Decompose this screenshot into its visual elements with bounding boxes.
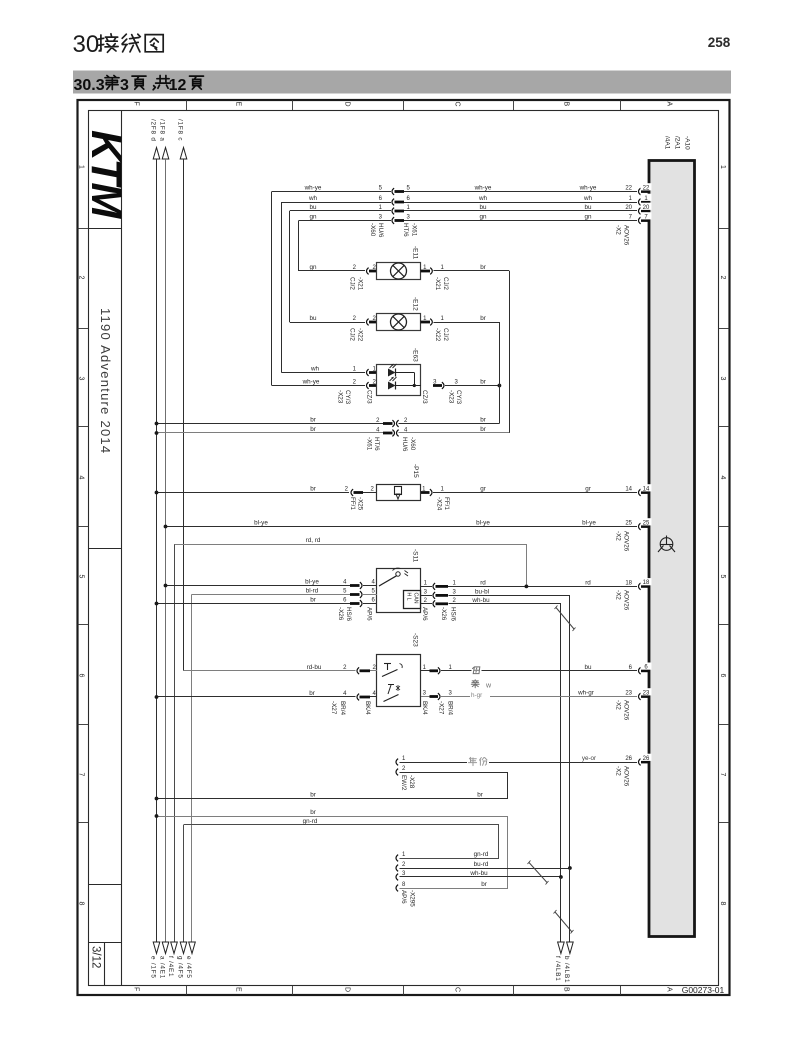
svg-text:-X61: -X61 bbox=[411, 223, 418, 237]
switch S23 box bbox=[377, 655, 421, 707]
svg-text:HU/6: HU/6 bbox=[377, 223, 384, 238]
svg-text:gn: gn bbox=[479, 214, 487, 221]
svg-text:23: 23 bbox=[643, 690, 650, 696]
wire br to S11 pin 6 bbox=[157, 603, 351, 605]
svg-text:-X26: -X26 bbox=[337, 607, 344, 621]
svg-text:-X2: -X2 bbox=[615, 700, 622, 710]
block pin 7 bbox=[639, 217, 641, 224]
lamp E12 bbox=[290, 322, 365, 324]
svg-text:-X2: -X2 bbox=[615, 225, 622, 235]
wire bu to block pin 20 bbox=[290, 210, 391, 212]
svg-text:wh-ye: wh-ye bbox=[302, 379, 320, 386]
wire rd from S11 pin 1 to block pin 18 bbox=[421, 586, 432, 588]
svg-text:-X22: -X22 bbox=[357, 328, 364, 342]
svg-text:br: br bbox=[480, 426, 486, 433]
wire bus bl-ye (left 2) bbox=[165, 159, 167, 942]
block pin 22 bbox=[639, 188, 641, 195]
svg-text:22: 22 bbox=[643, 185, 650, 191]
S11 CAN box bbox=[404, 591, 421, 609]
svg-text:20: 20 bbox=[643, 205, 650, 211]
title block column bbox=[121, 110, 123, 986]
outer drawing frame bbox=[78, 100, 730, 995]
wire br to S23 pin 4 bbox=[157, 696, 356, 698]
svg-text:25: 25 bbox=[625, 521, 632, 527]
svg-text:wh-ye: wh-ye bbox=[474, 185, 492, 192]
svg-text:rd: rd bbox=[585, 580, 591, 587]
svg-text:14: 14 bbox=[643, 486, 650, 492]
svg-text:C: C bbox=[454, 987, 461, 992]
connector -X28 EW/2 bbox=[396, 759, 398, 766]
svg-text:H L: H L bbox=[406, 593, 412, 601]
LED symbols inside E63 bbox=[388, 369, 396, 377]
svg-text:CZ/3: CZ/3 bbox=[421, 390, 428, 404]
svg-text:gr: gr bbox=[480, 486, 486, 493]
svg-text:gn: gn bbox=[584, 214, 592, 221]
off-page arrow f /4LB1 bbox=[558, 942, 565, 954]
svg-text:-X2: -X2 bbox=[615, 766, 622, 776]
wire bracket wh-ye bbox=[271, 192, 273, 386]
label qin w (Chinese) bbox=[471, 680, 479, 688]
svg-text:B: B bbox=[563, 987, 570, 992]
svg-text:BK/4: BK/4 bbox=[421, 701, 428, 715]
svg-text:/1F8 a: /1F8 a bbox=[159, 119, 166, 142]
svg-text:br: br bbox=[480, 264, 486, 271]
svg-text:25: 25 bbox=[643, 520, 650, 526]
svg-text:-X295: -X295 bbox=[409, 890, 416, 907]
svg-text:a /4E1: a /4E1 bbox=[159, 956, 166, 979]
svg-text:br: br bbox=[310, 426, 316, 433]
wire bl-ye to S11 pin 4 bbox=[166, 585, 351, 587]
svg-text:3/12: 3/12 bbox=[90, 946, 102, 968]
svg-text:bu-rd: bu-rd bbox=[474, 861, 489, 868]
svg-text:bu: bu bbox=[584, 664, 592, 671]
svg-text:bu-bl: bu-bl bbox=[475, 589, 489, 596]
wire bus rd (left 3) bbox=[174, 544, 176, 942]
svg-text:wh: wh bbox=[310, 366, 320, 373]
svg-text:bu: bu bbox=[309, 204, 317, 211]
svg-text:-E11: -E11 bbox=[412, 246, 419, 260]
svg-text:rd, rd: rd, rd bbox=[306, 537, 321, 544]
sensor P15 bbox=[157, 492, 350, 494]
svg-text:bl-ye: bl-ye bbox=[305, 579, 319, 586]
wire bu-rd X295 pin 2 bbox=[400, 868, 570, 870]
svg-text:AOV26: AOV26 bbox=[623, 700, 630, 721]
svg-text:BK/4: BK/4 bbox=[364, 701, 371, 715]
block pin 6 bbox=[639, 667, 641, 674]
svg-text:AOV26: AOV26 bbox=[623, 531, 630, 552]
svg-text:FF/1: FF/1 bbox=[349, 497, 356, 510]
wire wh-bu from S11 pin 2 bbox=[421, 603, 432, 605]
svg-text:F: F bbox=[133, 102, 140, 106]
svg-text:22: 22 bbox=[625, 186, 632, 192]
wire bracket wh bbox=[281, 202, 283, 373]
label nianfen (Chinese year) bbox=[468, 757, 476, 765]
svg-text:-X61: -X61 bbox=[366, 437, 373, 451]
svg-text:HS/6: HS/6 bbox=[345, 607, 352, 621]
svg-text:rd-bu: rd-bu bbox=[307, 664, 322, 671]
control unit -A10 /2A1 /4A1 block bbox=[649, 161, 695, 937]
svg-text:bl-ye: bl-ye bbox=[254, 520, 268, 527]
svg-text:CJ/2: CJ/2 bbox=[442, 328, 449, 341]
svg-text:G00273-01: G00273-01 bbox=[682, 985, 725, 995]
svg-text:br: br bbox=[310, 597, 316, 604]
wire br vertical from E11 bbox=[509, 271, 511, 433]
svg-text:wh-ye: wh-ye bbox=[579, 185, 597, 192]
svg-text:wh-gr: wh-gr bbox=[577, 690, 594, 697]
wire gn to block pin 7 bbox=[299, 220, 391, 222]
off-page arrow e /4F5 bottom bbox=[189, 942, 196, 954]
svg-text:5: 5 bbox=[78, 575, 85, 579]
svg-text:EW/2: EW/2 bbox=[400, 775, 407, 791]
svg-text:FF/1: FF/1 bbox=[443, 497, 450, 510]
svg-text:CZ/3: CZ/3 bbox=[366, 390, 373, 404]
wire bu from S23 pin 1 to block pin 6 bbox=[421, 670, 430, 672]
svg-text:14: 14 bbox=[625, 487, 632, 493]
svg-text:30: 30 bbox=[73, 31, 100, 58]
twisted pair marker upper bbox=[556, 608, 574, 630]
svg-text:4: 4 bbox=[719, 476, 726, 480]
svg-text:23: 23 bbox=[625, 691, 632, 697]
svg-text:rd: rd bbox=[480, 580, 486, 587]
svg-text:HS/6: HS/6 bbox=[450, 607, 457, 621]
svg-text:26: 26 bbox=[625, 756, 632, 762]
svg-text:-X23: -X23 bbox=[448, 390, 455, 404]
svg-text:-X27: -X27 bbox=[438, 701, 445, 715]
svg-text:gr: gr bbox=[585, 486, 591, 493]
svg-text:1190 Adventure 2014: 1190 Adventure 2014 bbox=[98, 308, 113, 454]
svg-text:br: br bbox=[477, 792, 483, 799]
junction rd bbox=[525, 585, 529, 589]
svg-text:-S23: -S23 bbox=[412, 633, 419, 647]
wire br from X28 pin 2 bbox=[157, 773, 508, 799]
wire bl-ye to block pin 25 bbox=[166, 526, 638, 528]
svg-text:ye-or: ye-or bbox=[582, 755, 596, 762]
svg-text:HT/6: HT/6 bbox=[402, 223, 409, 237]
svg-text:/1F8 c: /1F8 c bbox=[177, 119, 184, 141]
svg-text:C: C bbox=[454, 102, 461, 107]
svg-text:258: 258 bbox=[708, 35, 731, 50]
junction br at E63 bbox=[498, 384, 502, 388]
svg-text:-A10: -A10 bbox=[684, 136, 691, 150]
wire br row A to connector -X61/-X60 bbox=[157, 423, 384, 425]
svg-text:A: A bbox=[666, 987, 673, 992]
svg-text:2: 2 bbox=[719, 276, 726, 280]
svg-text:b /4LB1: b /4LB1 bbox=[563, 956, 570, 983]
svg-text:-X27: -X27 bbox=[330, 701, 337, 715]
svg-text:bl-ye: bl-ye bbox=[476, 520, 490, 527]
P15 internal symbol bbox=[395, 487, 402, 495]
wire rd,rd jumper bbox=[175, 545, 527, 587]
svg-text:8: 8 bbox=[78, 902, 85, 906]
svg-text:br: br bbox=[310, 792, 316, 799]
svg-text:D: D bbox=[344, 987, 351, 992]
svg-text:7: 7 bbox=[719, 773, 726, 777]
wire wh to block pin 1 bbox=[281, 202, 391, 204]
svg-text:bl-ye: bl-ye bbox=[582, 520, 596, 527]
svg-text:wh: wh bbox=[583, 195, 593, 202]
wire bracket bu bbox=[289, 211, 291, 322]
svg-text:-X25: -X25 bbox=[357, 497, 364, 511]
svg-text:3: 3 bbox=[719, 377, 726, 381]
svg-text:-X24: -X24 bbox=[436, 497, 443, 511]
wire br from E12 bbox=[434, 322, 500, 324]
svg-text:B: B bbox=[563, 102, 570, 107]
off-page arrow a /4E1 bottom bbox=[162, 942, 169, 954]
svg-text:gn: gn bbox=[309, 264, 317, 271]
off-page arrow e /1F5 bottom bbox=[153, 942, 160, 954]
svg-text:6: 6 bbox=[78, 674, 85, 678]
svg-text:AOV26: AOV26 bbox=[623, 590, 630, 611]
svg-text:-X60: -X60 bbox=[409, 437, 416, 451]
svg-text:br: br bbox=[310, 417, 316, 424]
gray section band bbox=[73, 71, 731, 94]
svg-text:h-gr: h-gr bbox=[471, 692, 482, 699]
wire br from E63 pin3 bbox=[433, 384, 442, 387]
wire br to X295 pin 8 bbox=[157, 817, 508, 889]
svg-text:8: 8 bbox=[719, 902, 726, 906]
svg-text:-X21: -X21 bbox=[434, 277, 441, 291]
wire bus br (left 1) bbox=[156, 159, 158, 942]
wire gn-rd to X295 pin 1 bbox=[184, 825, 499, 859]
svg-text:-P15: -P15 bbox=[412, 464, 419, 478]
block pin 25 bbox=[639, 523, 641, 530]
svg-text:e /4F5: e /4F5 bbox=[185, 956, 192, 979]
svg-text:wh: wh bbox=[478, 195, 488, 202]
svg-text:KTM: KTM bbox=[82, 130, 130, 219]
svg-text:-E63: -E63 bbox=[412, 348, 419, 362]
svg-text:AP/6: AP/6 bbox=[366, 607, 373, 621]
svg-text:3: 3 bbox=[120, 77, 129, 94]
svg-text:E: E bbox=[235, 987, 242, 992]
wire wh-gr from S23 pin 3 to block pin 23 bbox=[421, 696, 430, 698]
block pin 20 bbox=[639, 208, 641, 215]
wire bracket gn bbox=[298, 221, 300, 272]
LED unit E63 bbox=[281, 372, 365, 374]
svg-text:-X2: -X2 bbox=[615, 531, 622, 541]
S23 internal switch symbols bbox=[384, 663, 391, 665]
svg-text:12: 12 bbox=[169, 77, 187, 94]
svg-text:2: 2 bbox=[78, 276, 85, 280]
top letter strip ticks bbox=[186, 100, 188, 110]
wire br from E11 bbox=[434, 270, 510, 272]
svg-text:br: br bbox=[480, 417, 486, 424]
label mu (Chinese) bbox=[472, 666, 482, 676]
svg-text:bu: bu bbox=[584, 204, 592, 211]
block pin 14 bbox=[639, 489, 641, 496]
svg-text:-X60: -X60 bbox=[369, 223, 376, 237]
switch S11 box bbox=[377, 569, 421, 613]
svg-text:-X21: -X21 bbox=[357, 277, 364, 291]
svg-text:br: br bbox=[481, 881, 487, 888]
svg-text:wh-bu: wh-bu bbox=[471, 597, 490, 604]
off-page arrow f /4E1 bottom bbox=[171, 942, 178, 954]
svg-text:1: 1 bbox=[719, 165, 726, 169]
wire gr to block pin 14 bbox=[433, 492, 637, 494]
svg-text:E: E bbox=[235, 102, 242, 107]
svg-text:AOV26: AOV26 bbox=[623, 766, 630, 787]
svg-text:bu: bu bbox=[309, 315, 317, 322]
svg-text:CAN: CAN bbox=[413, 593, 419, 604]
wire br vertical right of lamps bbox=[499, 322, 501, 424]
block pin 18 bbox=[639, 583, 641, 590]
svg-text:CY/3: CY/3 bbox=[344, 390, 351, 404]
svg-text:D: D bbox=[344, 102, 351, 107]
S11 internal switch symbol bbox=[396, 572, 400, 576]
svg-text:CY/3: CY/3 bbox=[455, 390, 462, 404]
block pin 1 bbox=[639, 199, 641, 206]
svg-text:AOV26: AOV26 bbox=[623, 225, 630, 246]
connector -X295 AP/6 bbox=[396, 855, 398, 862]
svg-text:-X2: -X2 bbox=[615, 590, 622, 600]
svg-text:wh-ye: wh-ye bbox=[304, 185, 322, 192]
lamp E11 bbox=[299, 270, 365, 272]
svg-text:3: 3 bbox=[78, 377, 85, 381]
svg-text:/2A1: /2A1 bbox=[674, 136, 681, 150]
left number strip ticks bbox=[78, 228, 89, 230]
svg-text:CJ/2: CJ/2 bbox=[349, 277, 356, 290]
svg-text:e /1F5: e /1F5 bbox=[150, 956, 157, 979]
svg-text:wh: wh bbox=[308, 195, 318, 202]
svg-text:br: br bbox=[480, 379, 486, 386]
svg-text:AP/6: AP/6 bbox=[421, 607, 428, 621]
svg-text:6: 6 bbox=[719, 674, 726, 678]
inner drawing frame bbox=[89, 111, 719, 986]
svg-text:30.3: 30.3 bbox=[74, 77, 105, 94]
svg-text:g /4F5: g /4F5 bbox=[177, 956, 184, 979]
svg-text:-X22: -X22 bbox=[434, 328, 441, 342]
svg-text:A: A bbox=[666, 102, 673, 107]
svg-text:br: br bbox=[310, 486, 316, 493]
svg-text:CJ/2: CJ/2 bbox=[349, 328, 356, 341]
svg-text:HT/6: HT/6 bbox=[373, 437, 380, 451]
wire wh-ye to block pin 22 bbox=[272, 191, 391, 193]
svg-text:br: br bbox=[310, 809, 316, 816]
svg-text:gn: gn bbox=[309, 214, 317, 221]
block pin 26 bbox=[639, 759, 641, 766]
svg-text:f /4E1: f /4E1 bbox=[167, 956, 174, 977]
svg-text:F: F bbox=[133, 987, 140, 991]
off-page arrow b /4LB1 bbox=[567, 942, 574, 954]
svg-text:18: 18 bbox=[625, 581, 632, 587]
twisted pair marker lower CAN bbox=[555, 912, 572, 932]
block pin 23 bbox=[639, 693, 641, 700]
wire rd-bu to S23 pin 2 bbox=[184, 670, 356, 672]
svg-text:5: 5 bbox=[719, 575, 726, 579]
svg-text:18: 18 bbox=[643, 580, 650, 586]
svg-text:BR/4: BR/4 bbox=[447, 701, 454, 715]
twisted pair marker at X295 bbox=[529, 863, 547, 883]
svg-text:w: w bbox=[485, 683, 492, 690]
wire bus gn-rd lower (left 4) bbox=[183, 825, 185, 942]
wire bu-bl from S11 pin 3 bbox=[421, 595, 432, 597]
svg-text:br: br bbox=[309, 690, 315, 697]
svg-text:CJ/2: CJ/2 bbox=[442, 277, 449, 290]
svg-text:/4A1: /4A1 bbox=[664, 136, 671, 150]
wire wh-bu X295 pin 3 bbox=[400, 876, 561, 878]
svg-text:-E12: -E12 bbox=[412, 297, 419, 311]
off-page arrow g /4F5 bottom bbox=[180, 942, 187, 954]
svg-text:26: 26 bbox=[643, 756, 650, 762]
wire br row B to connector -X61/-X60 bbox=[157, 432, 384, 434]
wire bl-rd to S11 pin 5 bbox=[192, 594, 351, 596]
wire bus upper (left 4) bbox=[183, 159, 185, 671]
svg-text:-S11: -S11 bbox=[412, 549, 419, 563]
svg-text:-X28: -X28 bbox=[408, 775, 415, 789]
svg-text:br: br bbox=[480, 315, 486, 322]
CAN wires to off-page arrows bbox=[560, 877, 562, 943]
svg-text:BR/4: BR/4 bbox=[339, 701, 346, 715]
svg-text:wh-bu: wh-bu bbox=[469, 870, 488, 877]
svg-text:4: 4 bbox=[78, 476, 85, 480]
wire bus bl-rd (left 5) bbox=[191, 595, 193, 943]
svg-text:AP/6: AP/6 bbox=[400, 890, 407, 904]
svg-text:gn-rd: gn-rd bbox=[303, 818, 318, 825]
svg-text:7: 7 bbox=[78, 773, 85, 777]
svg-text:HU/6: HU/6 bbox=[401, 437, 408, 452]
svg-text:-X23: -X23 bbox=[337, 390, 344, 404]
wire ye-or to block pin 26 bbox=[400, 762, 638, 764]
svg-text:20: 20 bbox=[625, 205, 632, 211]
svg-text:-X26: -X26 bbox=[440, 607, 447, 621]
steering symbol inside block bbox=[658, 536, 675, 553]
svg-text:bu: bu bbox=[479, 204, 487, 211]
svg-text:/2F8 d: /2F8 d bbox=[150, 119, 157, 142]
svg-text:gn-rd: gn-rd bbox=[474, 851, 489, 858]
svg-text:f /4LB1: f /4LB1 bbox=[554, 956, 561, 982]
svg-text:bl-rd: bl-rd bbox=[306, 588, 319, 595]
